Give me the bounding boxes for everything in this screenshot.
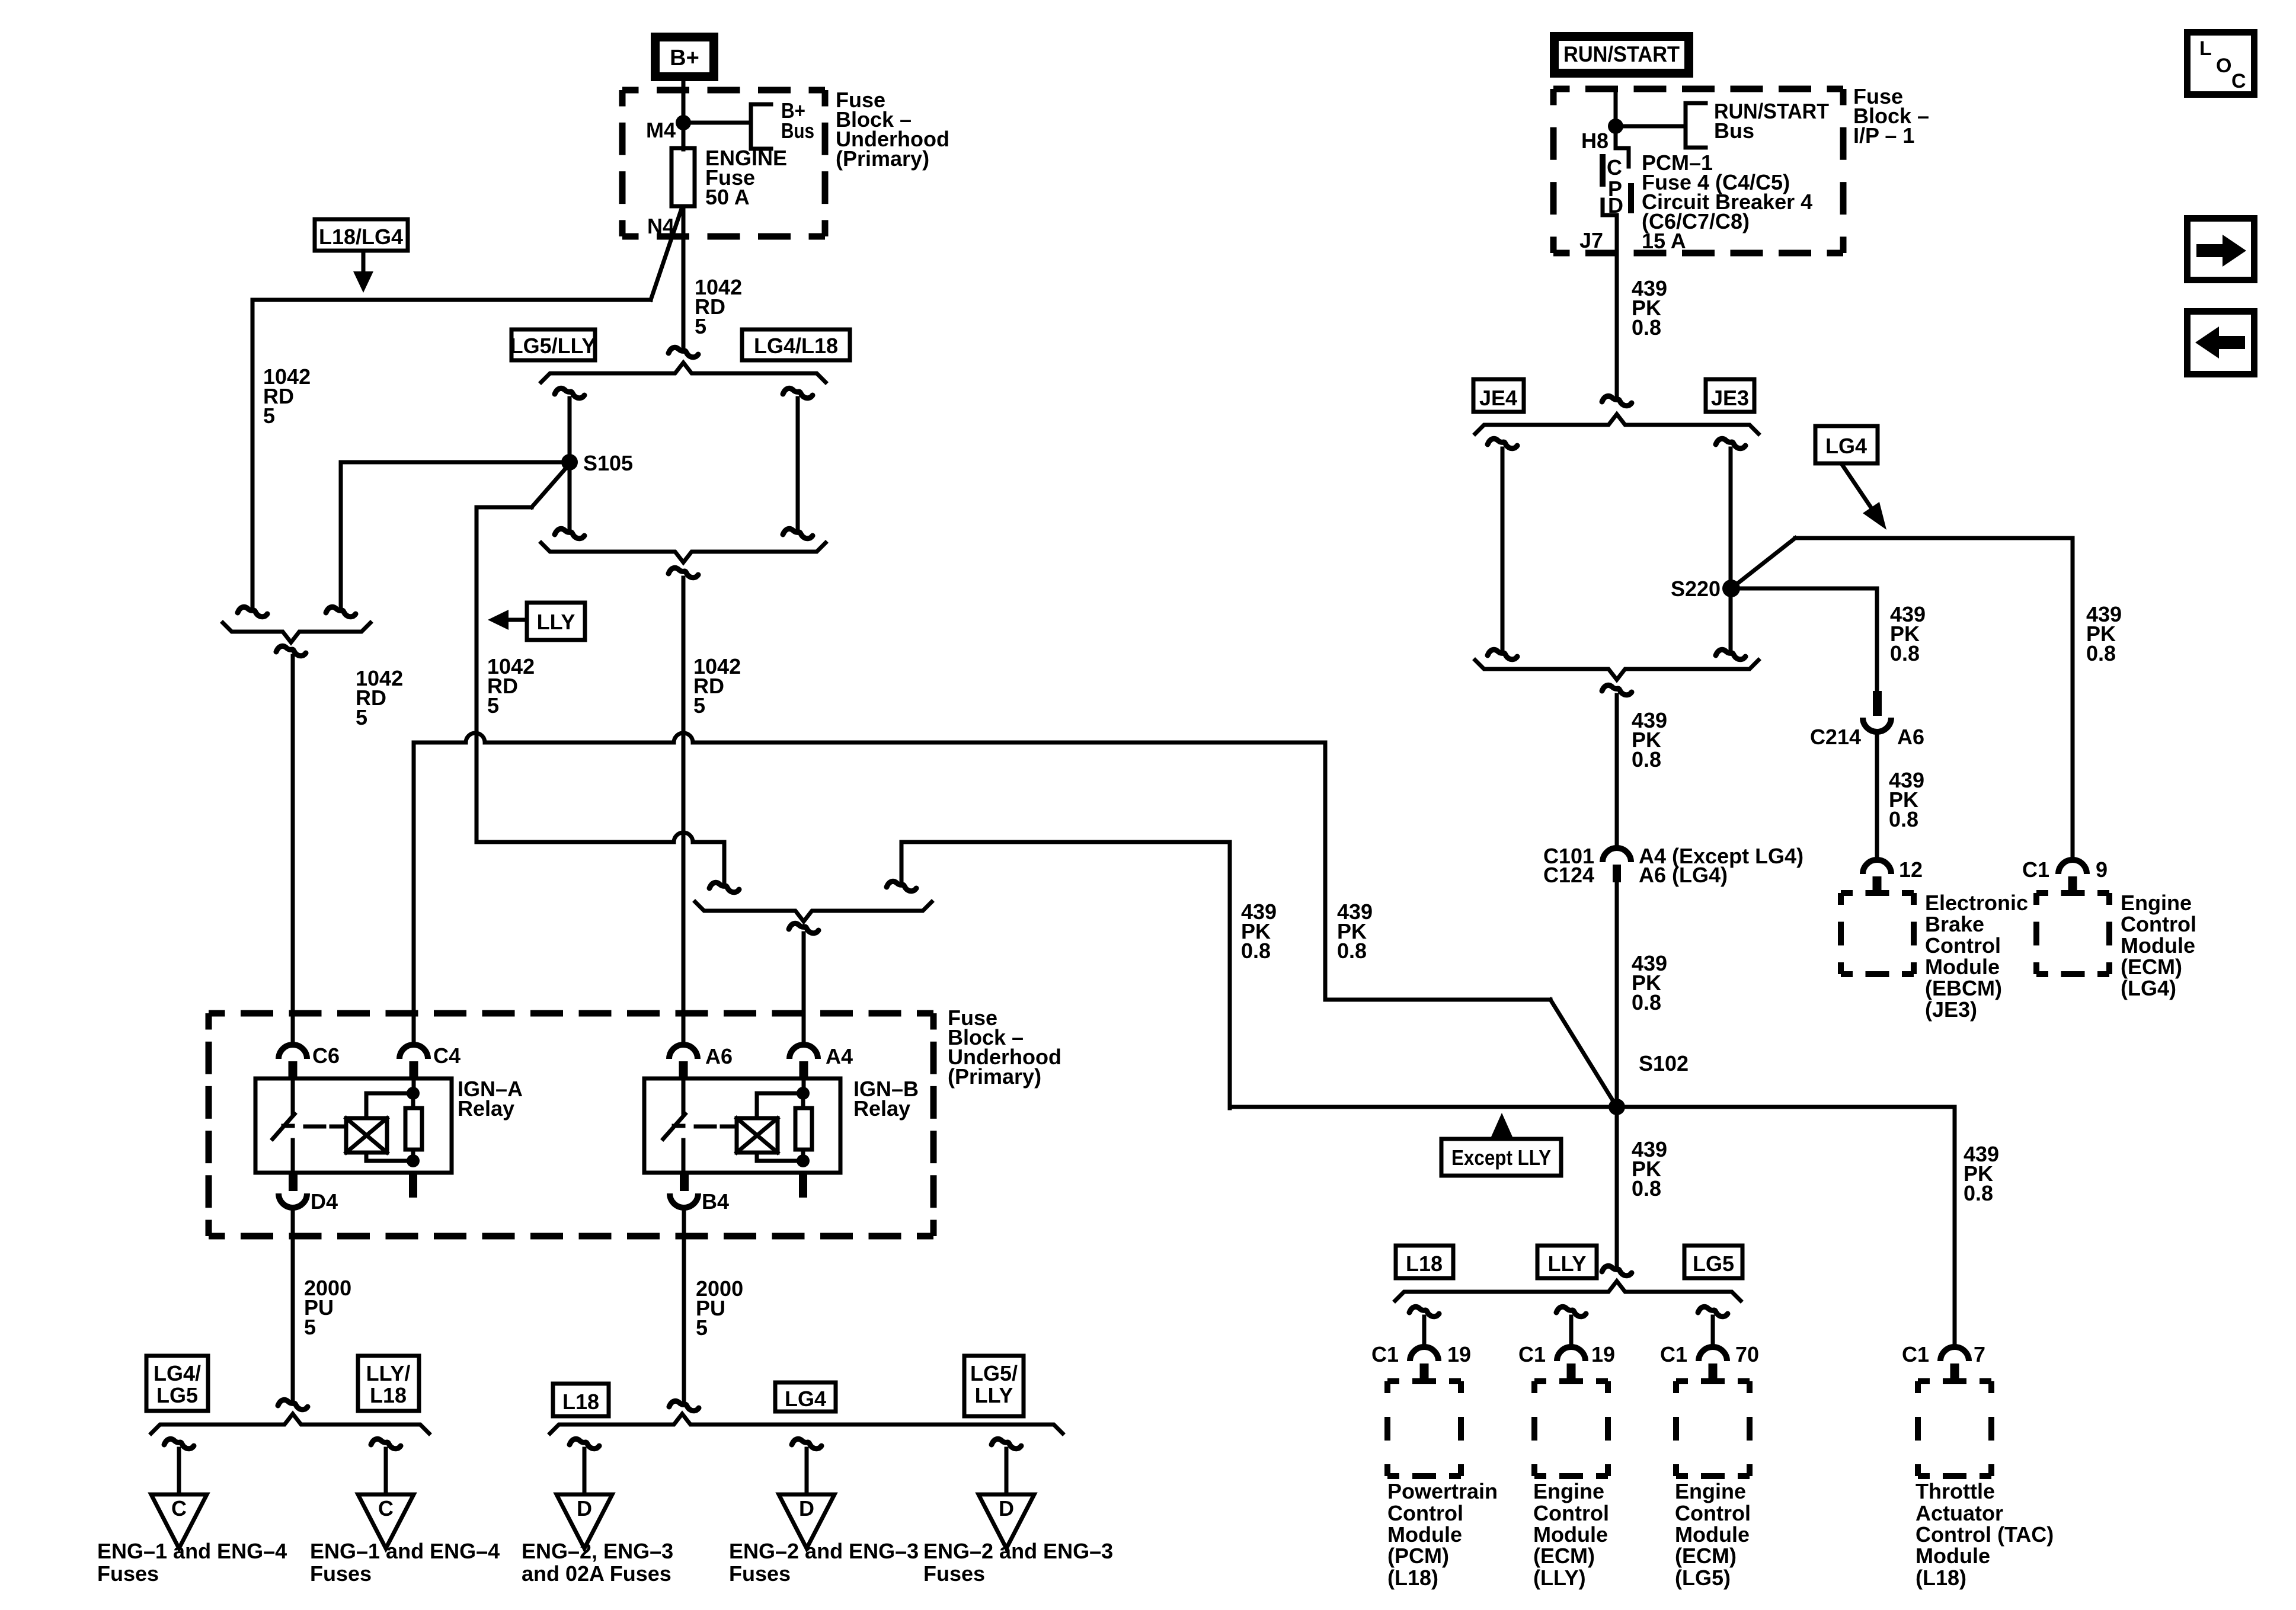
pin C1 9 ECM LG4 — [2058, 860, 2087, 874]
fuse ENGINE 50 A symbol — [671, 148, 695, 206]
svg-text:LLY/: LLY/ — [366, 1361, 411, 1385]
svg-text:C4: C4 — [433, 1044, 461, 1068]
box LG5/LLY — [511, 329, 595, 360]
wire S220 diagonal — [1731, 538, 1795, 588]
wire J7 down — [1615, 215, 1619, 398]
wire down to A4 — [802, 933, 806, 1045]
svg-text:C124: C124 — [1543, 863, 1594, 887]
svg-text:12: 12 — [1899, 857, 1923, 882]
hook left branch top — [555, 388, 584, 398]
svg-text:LG4: LG4 — [1825, 434, 1867, 458]
svg-text:L: L — [2199, 37, 2212, 60]
svg-text:Control: Control — [1675, 1501, 1751, 1525]
hook below A4-brace — [789, 923, 818, 933]
hook B4 wire end — [669, 1401, 699, 1410]
relay IGN-A coil loop — [366, 1093, 413, 1118]
triangle D mid — [779, 1494, 834, 1548]
pin C1 70 ECM LG5 — [1699, 1347, 1727, 1361]
hook JE3 branch bottom — [1716, 649, 1745, 659]
inline connector hook below fuse wire — [669, 347, 698, 357]
svg-text:Control: Control — [1387, 1501, 1463, 1525]
svg-text:Bus: Bus — [1714, 119, 1754, 143]
wire x804 down — [475, 507, 479, 842]
svg-text:LG4: LG4 — [785, 1387, 826, 1411]
relay IGN-B coil ground stub — [799, 1173, 807, 1198]
svg-text:5: 5 — [304, 1315, 316, 1339]
svg-text:(ECM): (ECM) — [2121, 955, 2182, 979]
hook right branch top — [783, 388, 813, 398]
relay IGN-B box — [644, 1078, 840, 1173]
wire S102 horizontal — [1230, 1105, 1955, 1109]
svg-text:5: 5 — [263, 404, 275, 428]
svg-text:Module: Module — [1533, 1522, 1608, 1547]
wire x2236 down — [1323, 742, 1328, 1000]
svg-text:Module: Module — [1916, 1544, 1990, 1568]
hook above A4-brace right — [887, 881, 916, 891]
svg-text:(L18): (L18) — [1387, 1566, 1438, 1590]
box LG5 select — [1684, 1246, 1742, 1278]
svg-text:5: 5 — [487, 693, 499, 718]
svg-text:C1: C1 — [1902, 1342, 1929, 1366]
module ECM LLY dashed box — [1534, 1378, 1608, 1384]
wire S102 down — [1615, 1107, 1619, 1268]
wire left leg down — [251, 300, 255, 609]
hook right branch bottom — [783, 529, 813, 538]
wire RUN/START down — [1614, 89, 1618, 148]
svg-text:ENG–1 and ENG–4: ENG–1 and ENG–4 — [97, 1539, 287, 1563]
box LLY select — [1537, 1246, 1597, 1278]
svg-text:LLY: LLY — [1548, 1251, 1587, 1276]
svg-text:LG5/LLY: LG5/LLY — [510, 334, 596, 358]
power node B+ — [655, 37, 714, 77]
hook C left — [164, 1439, 194, 1448]
svg-text:0.8: 0.8 — [1632, 315, 1661, 340]
wire feed west to L18/LG4 leg — [252, 298, 651, 302]
svg-text:Actuator: Actuator — [1916, 1501, 2003, 1525]
svg-text:JE4: JE4 — [1479, 386, 1517, 410]
switch IGN-B blade — [663, 1114, 685, 1139]
svg-text:C: C — [171, 1496, 187, 1521]
box Except LLY — [1441, 1139, 1561, 1176]
svg-text:Engine: Engine — [1533, 1479, 1604, 1503]
wire S220 to ECM LG4 — [1795, 536, 2073, 540]
svg-text:Module: Module — [1675, 1522, 1750, 1547]
switch IGN-A top terminal — [291, 1078, 295, 1113]
relay IGN-B resistor — [795, 1108, 812, 1150]
svg-text:(Primary): (Primary) — [948, 1064, 1041, 1089]
brace merge S105 bottom — [541, 543, 826, 562]
circuit breaker CPD right bar — [1628, 183, 1634, 213]
svg-text:5: 5 — [356, 705, 367, 729]
pin C4 — [399, 1045, 428, 1059]
wire to D triangle left — [583, 1449, 587, 1494]
svg-text:L18: L18 — [562, 1390, 599, 1414]
svg-text:LG5: LG5 — [1693, 1251, 1734, 1276]
svg-text:0.8: 0.8 — [1632, 1176, 1661, 1201]
triangle D left — [557, 1494, 612, 1548]
wire C101 to S102 — [1615, 882, 1619, 1107]
svg-text:D4: D4 — [311, 1189, 338, 1214]
hook below merge — [669, 568, 698, 577]
svg-text:(LG5): (LG5) — [1675, 1566, 1731, 1590]
box LG5/LLY bottom — [964, 1356, 1024, 1416]
box LG4/LG5 — [146, 1356, 208, 1411]
brace split C triangles — [151, 1414, 429, 1433]
svg-text:L18: L18 — [370, 1383, 407, 1407]
wire S220 east — [1731, 587, 1877, 591]
wire S105 diagonal — [532, 464, 570, 507]
box LLY/L18 — [358, 1356, 419, 1411]
svg-text:and 02A Fuses: and 02A Fuses — [522, 1561, 671, 1586]
wire B+ down to fuse block — [682, 81, 686, 149]
hook left branch bottom — [555, 529, 584, 538]
wire down to C6 — [291, 656, 295, 1045]
wire JE3 branch — [1729, 449, 1733, 652]
relay IGN-A resistor — [405, 1108, 422, 1150]
svg-text:S105: S105 — [583, 451, 633, 475]
svg-text:0.8: 0.8 — [1632, 990, 1661, 1014]
svg-text:Module: Module — [1925, 955, 2000, 979]
svg-text:5: 5 — [696, 1315, 708, 1340]
svg-text:L18: L18 — [1406, 1251, 1443, 1276]
svg-text:S220: S220 — [1671, 577, 1721, 601]
module EBCM dashed box — [1841, 890, 1914, 896]
svg-text:19: 19 — [1591, 1342, 1615, 1366]
junction dot coil bottom B — [797, 1154, 810, 1167]
box LG4 bottom — [775, 1382, 836, 1411]
arrow-left legend box — [2188, 312, 2255, 375]
svg-text:S102: S102 — [1639, 1051, 1689, 1076]
svg-text:O: O — [2216, 55, 2231, 77]
wire to ECM LG5 pin — [1711, 1317, 1715, 1347]
svg-text:LLY: LLY — [537, 610, 575, 634]
hook module LLY — [1556, 1307, 1586, 1316]
svg-text:Module: Module — [1387, 1522, 1462, 1547]
triangle C left — [151, 1494, 207, 1548]
svg-text:LG4/L18: LG4/L18 — [754, 334, 838, 358]
svg-text:ENG–2, ENG–3: ENG–2, ENG–3 — [522, 1539, 673, 1563]
arrow L18/LG4 down — [362, 251, 366, 273]
svg-text:(L18): (L18) — [1916, 1566, 1966, 1590]
wire to C triangle left — [177, 1449, 181, 1494]
svg-text:7: 7 — [1974, 1342, 1985, 1366]
svg-text:0.8: 0.8 — [1337, 939, 1367, 963]
svg-text:Brake: Brake — [1925, 912, 1984, 936]
svg-text:C6: C6 — [312, 1044, 340, 1068]
svg-text:Control: Control — [1925, 933, 2001, 958]
svg-text:(EBCM): (EBCM) — [1925, 976, 2002, 1000]
connector C101 C124 — [1603, 848, 1631, 862]
svg-text:Bus: Bus — [781, 119, 814, 143]
hook C right — [371, 1439, 401, 1448]
svg-text:LLY: LLY — [975, 1383, 1013, 1407]
svg-text:A4: A4 — [826, 1044, 853, 1068]
svg-text:15 A: 15 A — [1642, 229, 1686, 253]
B+ Bus bar symbol — [751, 104, 771, 149]
box L18 bottom — [553, 1384, 609, 1416]
wire C214 to pin 12 — [1875, 733, 1879, 860]
RUN/START Bus bar symbol — [1686, 103, 1706, 148]
switch IGN-A contact tick — [283, 1124, 293, 1128]
svg-text:D: D — [999, 1496, 1014, 1521]
hook JE4 branch top — [1488, 438, 1517, 448]
relay IGN-B coil loop — [757, 1093, 803, 1118]
svg-text:Fuses: Fuses — [923, 1561, 985, 1586]
hook x426 end — [238, 607, 267, 616]
svg-text:Control: Control — [1533, 1501, 1609, 1525]
switch IGN-A bottom terminal — [291, 1140, 295, 1173]
svg-text:C: C — [378, 1496, 394, 1521]
svg-text:(ECM): (ECM) — [1533, 1544, 1595, 1568]
svg-text:5: 5 — [695, 314, 706, 338]
svg-text:0.8: 0.8 — [2086, 641, 2116, 665]
svg-text:C214: C214 — [1810, 725, 1861, 749]
hook S102 wire end — [1602, 1266, 1632, 1275]
wire diagonal into S102 — [1550, 1000, 1617, 1107]
svg-text:9: 9 — [2096, 857, 2108, 882]
box LG4 callout — [1815, 426, 1878, 463]
wire diag horizontal — [477, 505, 532, 510]
junction H8 dot — [1608, 119, 1623, 134]
svg-text:5: 5 — [693, 693, 705, 718]
arrow LG4 — [1842, 465, 1873, 510]
wire H8 to bus — [1616, 124, 1686, 129]
box LG4/L18 — [742, 329, 850, 360]
hook module L18 — [1409, 1307, 1439, 1316]
brace merge left pair — [223, 623, 370, 642]
box L18/LG4 — [315, 219, 408, 251]
breaker top lead — [1616, 148, 1629, 167]
fuse block underhood dashed box — [622, 87, 825, 94]
node S102 dot — [1609, 1099, 1625, 1115]
svg-text:0.8: 0.8 — [1889, 807, 1918, 831]
hook D4 wire end — [278, 1400, 308, 1409]
wire fuse N4 down — [682, 206, 686, 350]
svg-text:19: 19 — [1447, 1342, 1471, 1366]
wire JE4 branch — [1501, 449, 1505, 652]
relay IGN-B actuate dashes — [696, 1125, 715, 1129]
svg-text:(JE3): (JE3) — [1925, 997, 1977, 1022]
module PCM dashed box — [1387, 1378, 1461, 1384]
svg-text:ENG–2 and ENG–3: ENG–2 and ENG–3 — [729, 1539, 919, 1563]
switch IGN-B contact tick — [674, 1124, 683, 1128]
wire to D triangle mid — [805, 1449, 809, 1494]
circuit breaker CPD left bar — [1600, 154, 1606, 187]
wire to D triangle right — [1005, 1449, 1009, 1494]
brace split modules — [1395, 1281, 1741, 1301]
power node RUN/START — [1555, 37, 1689, 73]
module TAC dashed box — [1918, 1378, 1991, 1384]
switch IGN-B top terminal — [682, 1078, 686, 1113]
junction dot coil top A — [407, 1087, 420, 1100]
svg-text:C1: C1 — [2022, 857, 2049, 882]
svg-text:Except LLY: Except LLY — [1451, 1145, 1551, 1170]
node S105 dot — [561, 454, 578, 470]
arrow-right legend box — [2188, 219, 2255, 280]
svg-text:D: D — [577, 1496, 592, 1521]
svg-text:D: D — [799, 1496, 814, 1521]
brace merge JE — [1475, 660, 1758, 680]
svg-text:LG4/: LG4/ — [154, 1361, 201, 1385]
junction M4 dot — [676, 115, 691, 130]
svg-text:B4: B4 — [702, 1189, 729, 1214]
svg-text:(LG4): (LG4) — [2121, 976, 2176, 1000]
svg-text:RUN/START: RUN/START — [1563, 42, 1680, 66]
svg-text:Control: Control — [2121, 912, 2196, 936]
svg-text:A6: A6 — [705, 1044, 733, 1068]
svg-text:(LLY): (LLY) — [1533, 1566, 1586, 1590]
hook JE4 branch bottom — [1488, 649, 1517, 659]
svg-text:C: C — [2231, 70, 2246, 92]
svg-text:A6: A6 — [1897, 725, 1924, 749]
wire corner down x1521 — [900, 842, 904, 883]
svg-text:0.8: 0.8 — [1890, 641, 1920, 665]
relay IGN-A coil — [346, 1118, 387, 1153]
pin 12 EBCM — [1863, 860, 1891, 874]
svg-text:Electronic: Electronic — [1925, 891, 2028, 915]
svg-text:Fuses: Fuses — [729, 1561, 791, 1586]
wire y1687 east — [1325, 998, 1550, 1002]
svg-text:(Primary): (Primary) — [836, 146, 929, 171]
breaker bottom lead — [1603, 200, 1617, 215]
wire B4 down — [682, 1208, 686, 1402]
pin C1 19 ECM LLY — [1557, 1347, 1585, 1361]
svg-text:J7: J7 — [1579, 228, 1603, 252]
svg-text:Fuses: Fuses — [310, 1561, 372, 1586]
relay IGN-A actuate dashes — [305, 1125, 324, 1129]
box JE4 — [1473, 379, 1524, 412]
pin C6 — [279, 1045, 307, 1059]
svg-text:70: 70 — [1735, 1342, 1759, 1366]
svg-text:L18/LG4: L18/LG4 — [319, 225, 403, 249]
svg-text:Throttle: Throttle — [1916, 1479, 1995, 1503]
relay IGN-A box — [255, 1078, 452, 1173]
svg-text:C: C — [1607, 155, 1622, 180]
brace split JE — [1475, 414, 1758, 434]
arrow Except LLY up — [1490, 1113, 1514, 1140]
wire corner down to connector — [722, 842, 727, 884]
connector C214 — [1873, 691, 1882, 716]
module ECM LG4 dashed box — [2036, 890, 2109, 896]
wire to C triangle right — [384, 1449, 388, 1494]
box LLY — [527, 603, 585, 640]
hook module LG5 — [1698, 1307, 1728, 1316]
arrow LLY west — [507, 618, 527, 622]
wire A4 into coil node — [802, 1078, 806, 1093]
hook above A4-brace left — [709, 882, 739, 892]
svg-text:ENG–1 and ENG–4: ENG–1 and ENG–4 — [310, 1539, 500, 1563]
svg-text:Engine: Engine — [2121, 891, 2192, 915]
wire center down to A6 — [682, 578, 686, 1045]
hook below JE merge — [1602, 685, 1632, 694]
wire JE merge down — [1615, 695, 1619, 848]
svg-text:Control (TAC): Control (TAC) — [1916, 1522, 2054, 1547]
wire to PCM pin — [1422, 1317, 1427, 1347]
brace split D triangles — [550, 1414, 1063, 1433]
svg-text:JE3: JE3 — [1711, 386, 1749, 410]
wire x575 down — [339, 462, 343, 609]
svg-text:(PCM): (PCM) — [1387, 1544, 1449, 1568]
LOC legend box — [2188, 33, 2255, 95]
wire TAC down — [1953, 1107, 1957, 1347]
hook D right — [992, 1439, 1021, 1448]
svg-text:A6 (LG4): A6 (LG4) — [1639, 863, 1728, 887]
junction dot coil top B — [797, 1087, 810, 1100]
wire ECM LG4 down — [2071, 538, 2075, 860]
pin C1 7 TAC — [1940, 1347, 1969, 1361]
box L18 select — [1396, 1246, 1453, 1278]
svg-text:LG5: LG5 — [156, 1383, 198, 1407]
wire y1421 right segment — [901, 840, 1230, 844]
svg-text:H8: H8 — [1581, 129, 1609, 153]
wire LG4/L18 branch — [796, 398, 800, 530]
wire N4 diagonal branch — [651, 209, 682, 300]
wire y1421 LLY segment — [477, 833, 724, 842]
relay IGN-A coil ground stub — [409, 1173, 417, 1198]
wire D4 down — [291, 1208, 295, 1401]
hook D left — [570, 1439, 599, 1448]
pin C1 19 PCM — [1410, 1347, 1438, 1361]
switch IGN-A blade — [273, 1114, 295, 1139]
box JE3 — [1706, 379, 1754, 412]
svg-text:I/P – 1: I/P – 1 — [1853, 123, 1914, 148]
wire S105 west — [341, 460, 570, 465]
fuse block IP dashed box — [1553, 86, 1843, 92]
svg-text:ENG–2 and ENG–3: ENG–2 and ENG–3 — [923, 1539, 1113, 1563]
hook below left merge — [276, 646, 306, 655]
module ECM LG5 dashed box — [1676, 1378, 1750, 1384]
wire C4 into coil node — [412, 1078, 416, 1093]
svg-text:0.8: 0.8 — [1964, 1181, 1993, 1205]
wire down to C4 — [412, 742, 416, 1045]
hook JE3 branch top — [1716, 438, 1745, 448]
pin D4 — [289, 1173, 298, 1191]
svg-text:50 A: 50 A — [705, 185, 750, 209]
wire to ECM LLY pin — [1569, 1317, 1574, 1347]
hook x575 end — [326, 607, 356, 616]
svg-text:C1: C1 — [1518, 1342, 1546, 1366]
hook D mid — [792, 1439, 821, 1448]
wire C4 feed horizontal — [414, 733, 1325, 742]
pin B4 — [680, 1173, 689, 1191]
wire M4 to B+ Bus — [683, 121, 751, 125]
brace split S105 top — [541, 363, 826, 382]
svg-text:M4: M4 — [646, 118, 676, 142]
svg-text:C1: C1 — [1371, 1342, 1399, 1366]
svg-text:Engine: Engine — [1675, 1479, 1746, 1503]
svg-text:Fuses: Fuses — [97, 1561, 159, 1586]
junction dot coil bottom A — [407, 1154, 420, 1167]
wire LG5/LLY branch — [568, 398, 572, 530]
svg-text:C1: C1 — [1660, 1342, 1687, 1366]
hook J7 wire end — [1602, 396, 1632, 405]
svg-text:0.8: 0.8 — [1241, 939, 1271, 963]
relay IGN-B coil — [737, 1118, 778, 1153]
svg-text:Powertrain: Powertrain — [1387, 1479, 1498, 1503]
svg-text:B+: B+ — [670, 46, 699, 71]
triangle C right — [358, 1494, 414, 1548]
wire C214 down — [1875, 588, 1879, 693]
svg-text:Module: Module — [2121, 933, 2195, 958]
fuse block relays dashed box — [209, 1010, 933, 1017]
brace A4 select — [695, 902, 932, 921]
wire x2075 down — [1228, 842, 1232, 1108]
svg-text:LG5/: LG5/ — [970, 1361, 1018, 1385]
svg-text:Relay: Relay — [853, 1096, 910, 1121]
svg-text:Relay: Relay — [458, 1096, 514, 1121]
node S220 dot — [1722, 580, 1740, 597]
svg-text:0.8: 0.8 — [1632, 747, 1661, 772]
